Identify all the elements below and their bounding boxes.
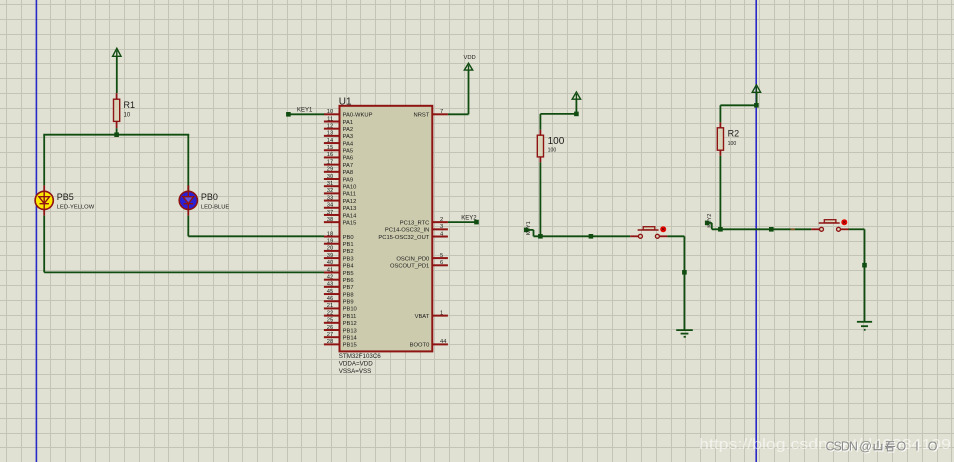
pin 44 BOOT0 (right) (410, 339, 448, 349)
pin 14 PA4 (left) (324, 138, 354, 148)
node junction below power (right) (754, 103, 759, 108)
svg-text:VBAT: VBAT (415, 314, 430, 320)
wire KEY1 terminal L (middle) (526, 230, 533, 236)
svg-text:12: 12 (327, 123, 333, 129)
svg-text:KEY1: KEY1 (526, 221, 532, 235)
svg-text:100: 100 (728, 141, 737, 147)
svg-text:5: 5 (440, 253, 443, 259)
svg-text:PB5: PB5 (57, 192, 74, 202)
pin 40 PB4 (left) (324, 260, 354, 270)
wire resistor 100 down (539, 162, 541, 236)
svg-text:39: 39 (327, 253, 333, 259)
svg-text:PA4: PA4 (343, 141, 354, 147)
button KEY1 (middle) (630, 227, 667, 239)
svg-text:43: 43 (327, 282, 333, 288)
LED PB5 (LED-YELLOW) (35, 185, 53, 215)
svg-text:11: 11 (327, 116, 333, 122)
label VDDA=VDD (339, 361, 373, 368)
node junction R2/wire (right) (718, 227, 723, 232)
svg-text:R2: R2 (728, 129, 740, 139)
wire power to R1 (116, 56, 118, 93)
svg-text:PA12: PA12 (343, 199, 357, 205)
node junction on ground drop (middle) (682, 270, 687, 275)
sheet border right (blue) (755, 0, 757, 462)
pin 25 PB12 (left) (324, 318, 357, 328)
svg-text:100: 100 (548, 148, 557, 154)
pin 18 PB0 (left) (324, 231, 354, 241)
pin 7 NRST (right) (414, 109, 448, 119)
svg-text:37: 37 (327, 210, 333, 216)
wire PC13 to KEY2 (448, 221, 477, 223)
LED PB0 (LED-BLUE) (179, 135, 197, 216)
svg-text:33: 33 (327, 195, 333, 201)
svg-text:26: 26 (327, 325, 333, 331)
svg-text:18: 18 (327, 231, 333, 237)
svg-text:22: 22 (327, 310, 333, 316)
svg-text:PB8: PB8 (343, 292, 354, 298)
svg-text:45: 45 (327, 289, 333, 295)
svg-text:34: 34 (327, 203, 334, 209)
button KEY1 red actuator dot (660, 226, 666, 232)
pin 27 PB14 (left) (324, 332, 358, 342)
svg-text:PB4: PB4 (343, 264, 355, 270)
label U1 (339, 96, 352, 107)
value 100 (middle resistor) (548, 148, 557, 154)
pin 2 PC13_RTC (right) (400, 217, 448, 227)
node KEY1 terminal at PA0 (286, 112, 291, 117)
svg-text:PA11: PA11 (343, 192, 356, 198)
svg-text:2: 2 (440, 217, 443, 223)
op-amp U1 chip body (STM32F103C6) (340, 106, 433, 352)
pin 17 PA7 (left) (324, 159, 353, 169)
svg-text:PB10: PB10 (343, 307, 357, 313)
svg-text:CSDN @: CSDN @ (826, 439, 873, 453)
pin 6 OSCOUT_PD1 (right) (390, 260, 448, 270)
pin 1 VBAT (right) (415, 310, 448, 320)
pin 38 PA15 (left) (324, 217, 356, 227)
svg-text:OSCIN_PD0: OSCIN_PD0 (396, 256, 429, 262)
svg-text:28: 28 (327, 339, 333, 345)
label KEY1 (at chip) (297, 107, 313, 113)
power symbol arrow (middle) (572, 92, 580, 99)
pin 20 PB2 (left) (324, 246, 354, 256)
svg-text:30: 30 (327, 174, 333, 180)
svg-text:PB13: PB13 (343, 328, 357, 334)
svg-text:21: 21 (327, 303, 333, 309)
svg-text:PB3: PB3 (343, 256, 354, 262)
pin 5 OSCIN_PD0 (right) (396, 253, 447, 263)
pin 42 PB6 (left) (324, 274, 354, 284)
wire down to LED PB5 (43, 135, 45, 186)
label KEY1 rotated (middle) (526, 221, 532, 235)
pin 28 PB15 (left) (324, 339, 357, 349)
watermark CSDN user (826, 439, 939, 454)
svg-text:PA13: PA13 (343, 206, 357, 212)
svg-text:PA6: PA6 (343, 156, 354, 162)
button KEY2 (right) (811, 220, 848, 232)
wire horizontal top rail y=134.7 (43, 134, 189, 136)
svg-text:PB5: PB5 (343, 271, 354, 277)
svg-text:44: 44 (440, 339, 447, 345)
pin 29 PA8 (left) (324, 167, 353, 177)
svg-text:40: 40 (327, 260, 333, 266)
pin 45 PB8 (left) (324, 289, 354, 299)
label PB5 (57, 192, 74, 202)
wire power rail to R2 (720, 105, 756, 122)
node KEY1 terminal (middle) (524, 228, 529, 233)
pin 43 PB7 (left) (324, 282, 354, 292)
svg-text:1: 1 (440, 310, 443, 316)
label PB0 (201, 192, 218, 202)
pin 11 PA1 (left) (324, 116, 353, 126)
wire R1 bottom to junction (116, 128, 118, 135)
power symbol (VDD arrow) top-left (113, 48, 121, 56)
svg-text:OSCOUT_PD1: OSCOUT_PD1 (390, 264, 429, 270)
svg-text:STM32F103C6: STM32F103C6 (339, 353, 382, 360)
svg-text:PA2: PA2 (343, 127, 354, 133)
pin 33 PA12 (left) (324, 195, 356, 205)
node junction resistor/wire (middle) (538, 234, 543, 239)
svg-text:PA1: PA1 (343, 120, 354, 126)
svg-text:PB6: PB6 (343, 278, 354, 284)
pin 3 PC14-OSC32_IN (right) (385, 224, 448, 234)
svg-text:46: 46 (327, 296, 333, 302)
resistor R2 (717, 122, 723, 155)
pin 39 PB3 (left) (324, 253, 354, 263)
svg-text:PB11: PB11 (343, 314, 357, 320)
svg-text:25: 25 (327, 318, 333, 324)
wire horizontal to button (middle) (534, 235, 631, 237)
button KEY2 red actuator dot (841, 219, 847, 225)
svg-text:PB7: PB7 (343, 285, 354, 291)
svg-text:6: 6 (440, 260, 443, 266)
faint probe mark on wire (right) (791, 228, 795, 230)
svg-text:PB9: PB9 (343, 300, 354, 306)
pin 21 PB10 (left) (324, 303, 357, 313)
svg-text:7: 7 (440, 109, 443, 115)
svg-text:3: 3 (440, 224, 443, 230)
svg-text:16: 16 (327, 152, 333, 158)
pin 15 PA5 (left) (324, 145, 353, 155)
resistor R1 (114, 93, 120, 128)
svg-text:VDD: VDD (464, 55, 476, 61)
svg-text:LED-YELLOW: LED-YELLOW (57, 204, 95, 210)
svg-text:PB0: PB0 (201, 192, 218, 202)
node KEY2 terminal (right) (705, 221, 710, 226)
pin 22 PB11 (left) (324, 310, 356, 320)
label VSSA=VSS (339, 368, 372, 375)
svg-text:R1: R1 (124, 100, 136, 110)
svg-text:U1: U1 (339, 96, 352, 107)
node junction on ground drop (right) (862, 263, 867, 268)
wire KEY2 terminal L (right) (707, 223, 712, 229)
svg-text:BOOT0: BOOT0 (410, 343, 430, 349)
value 10 (R1) (124, 113, 131, 119)
svg-text:PB15: PB15 (343, 343, 357, 349)
svg-text:15: 15 (327, 145, 333, 151)
pin 30 PA9 (left) (324, 174, 353, 184)
pin 13 PA3 (left) (324, 131, 353, 141)
pin 34 PA13 (left) (324, 203, 356, 213)
svg-text:PB12: PB12 (343, 321, 357, 327)
label VDD (464, 55, 476, 61)
svg-text:32: 32 (327, 188, 333, 194)
resistor 100 (middle pull-up) (537, 130, 543, 163)
svg-text:41: 41 (327, 267, 333, 273)
wire PB0 row to chip (188, 235, 324, 237)
label LED-BLUE (201, 204, 229, 210)
pin 16 PA6 (left) (324, 152, 353, 162)
label LED-YELLOW (57, 204, 95, 210)
wire PB5 row to chip (44, 271, 324, 273)
svg-text:PA3: PA3 (343, 134, 354, 140)
svg-text:PB0: PB0 (343, 235, 354, 241)
svg-text:PA8: PA8 (343, 170, 354, 176)
watermark URL text (699, 436, 951, 453)
pin 46 PB9 (left) (324, 296, 354, 306)
pin 10 PA0-WKUP (left) (324, 109, 373, 119)
node KEY2 terminal at PC13 (474, 220, 479, 225)
svg-text:38: 38 (327, 217, 333, 223)
wire button to ground drop (middle) (667, 236, 684, 330)
wire power rail to resistor 100 (540, 114, 576, 130)
label KEY2 rotated (right) (707, 214, 713, 228)
svg-text:19: 19 (327, 239, 333, 245)
svg-text:PA14: PA14 (343, 213, 358, 219)
power symbol VDD (NRST) (464, 63, 472, 70)
svg-text:10: 10 (124, 113, 131, 119)
label R2 (728, 129, 740, 139)
svg-text:PB2: PB2 (343, 249, 354, 255)
pin 41 PB5 (left) (324, 267, 354, 277)
wire NRST to VDD (448, 70, 469, 114)
wire button2 to ground drop (right) (849, 229, 865, 321)
pin 31 PA10 (left) (324, 181, 356, 191)
power symbol arrow (right) (752, 85, 760, 93)
pin 37 PA14 (left) (324, 210, 357, 220)
node junction mid-wire (right) (769, 227, 774, 232)
svg-text:PA10: PA10 (343, 185, 357, 191)
svg-text:PB14: PB14 (343, 335, 358, 341)
svg-text:PC14-OSC32_IN: PC14-OSC32_IN (385, 228, 429, 234)
ground (middle) (676, 330, 693, 337)
svg-text:VDDA=VDD: VDDA=VDD (339, 361, 373, 368)
ground (right) (857, 322, 872, 330)
pin 4 PC15-OSC32_OUT (right) (378, 231, 448, 241)
wire LED PB5 down (43, 216, 45, 273)
wire power down (right) (756, 92, 758, 105)
svg-text:PA5: PA5 (343, 149, 354, 155)
svg-text:KEY1: KEY1 (297, 107, 313, 113)
svg-text:PB1: PB1 (343, 242, 354, 248)
svg-text:PC15-OSC32_OUT: PC15-OSC32_OUT (378, 235, 429, 241)
sheet border left (blue) (35, 0, 37, 462)
wire R2 down (719, 156, 721, 230)
svg-text:KEY2: KEY2 (461, 216, 477, 222)
svg-text:NRST: NRST (414, 113, 430, 119)
value 100 (R2) (728, 141, 737, 147)
node junction mid-wire (middle) (589, 234, 594, 239)
svg-text:13: 13 (327, 131, 333, 137)
label R1 (124, 100, 136, 110)
svg-text:PC13_RTC: PC13_RTC (400, 220, 430, 226)
svg-text:29: 29 (327, 167, 333, 173)
svg-text:20: 20 (327, 246, 333, 252)
svg-text:VSSA=VSS: VSSA=VSS (339, 368, 372, 375)
svg-text:27: 27 (327, 332, 333, 338)
pin 26 PB13 (left) (324, 325, 357, 335)
pin 19 PB1 (left) (324, 239, 354, 249)
wire KEY1 to PA0 (288, 113, 324, 115)
svg-text:14: 14 (327, 138, 334, 144)
wire horizontal (right) (712, 228, 812, 230)
svg-text:17: 17 (327, 159, 333, 165)
svg-text:OIO: OIO (897, 439, 938, 453)
svg-text:PA9: PA9 (343, 177, 354, 183)
svg-text:42: 42 (327, 274, 333, 280)
label STM32F103C6 (339, 353, 382, 360)
node junction at R1 bottom (114, 132, 119, 137)
svg-text:PA0-WKUP: PA0-WKUP (343, 113, 373, 119)
svg-text:31: 31 (327, 181, 333, 187)
svg-text:10: 10 (327, 109, 333, 115)
label KEY2 (at chip) (461, 216, 477, 222)
svg-text:PA7: PA7 (343, 163, 354, 169)
wire LED PB0 down (187, 216, 189, 237)
svg-text:100: 100 (548, 136, 565, 147)
svg-text:LED-BLUE: LED-BLUE (201, 204, 229, 210)
svg-text:PA15: PA15 (343, 220, 357, 226)
node junction below power (middle) (574, 112, 579, 117)
pin 32 PA11 (left) (324, 188, 356, 198)
pin 12 PA2 (left) (324, 123, 353, 132)
wire power down (middle) (575, 99, 577, 114)
label 100 (middle resistor name) (548, 136, 565, 147)
